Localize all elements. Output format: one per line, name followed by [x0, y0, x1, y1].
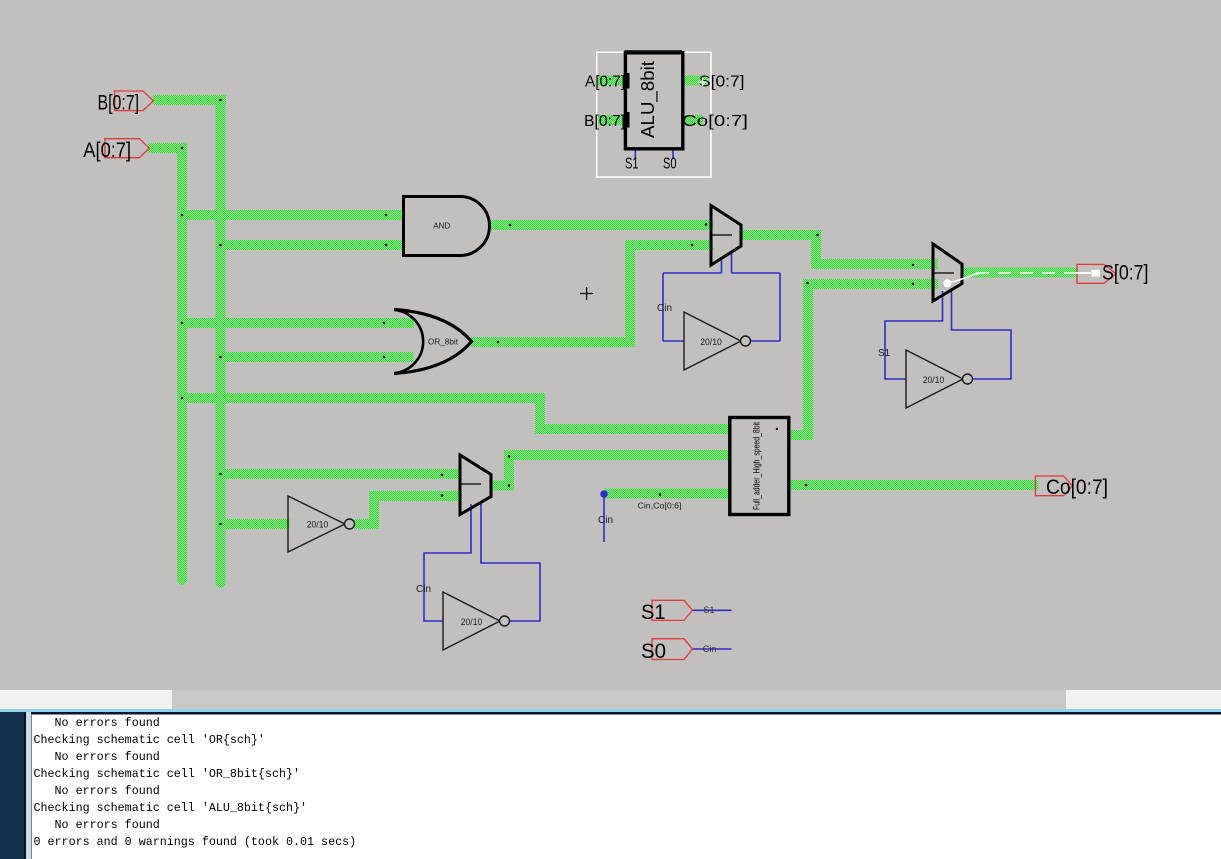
svg-text:ALU_8bit: ALU_8bit — [638, 61, 659, 138]
svg-text:20/10: 20/10 — [700, 337, 722, 347]
svg-text:B[0:7]: B[0:7] — [584, 113, 625, 130]
svg-text:S1: S1 — [641, 601, 666, 624]
svg-text:20/10: 20/10 — [923, 375, 945, 385]
svg-text:B[0:7]: B[0:7] — [98, 92, 140, 115]
svg-text:A[0:7]: A[0:7] — [83, 139, 131, 162]
svg-text:S1: S1 — [878, 348, 891, 359]
svg-text:OR_8bit: OR_8bit — [428, 338, 459, 347]
svg-text:Cin: Cin — [657, 303, 672, 314]
svg-text:Full_adder_High_speed_8bit: Full_adder_High_speed_8bit — [751, 422, 761, 510]
svg-text:Co[0:7]: Co[0:7] — [1046, 476, 1108, 499]
svg-text:S0: S0 — [641, 640, 666, 663]
svg-text:S1: S1 — [625, 156, 639, 173]
svg-text:20/10: 20/10 — [461, 617, 483, 627]
svg-text:A[0:7]: A[0:7] — [585, 74, 625, 91]
svg-text:S[0:7]: S[0:7] — [1102, 262, 1149, 285]
svg-text:20/10: 20/10 — [307, 519, 329, 529]
svg-text:Cin: Cin — [598, 515, 613, 526]
svg-text:S1: S1 — [703, 605, 714, 615]
svg-text:AND: AND — [433, 222, 450, 231]
svg-text:Cin: Cin — [703, 644, 717, 654]
svg-text:S0: S0 — [663, 156, 677, 173]
svg-text:Cin: Cin — [416, 584, 431, 595]
svg-text:Co[0:7]: Co[0:7] — [682, 113, 748, 130]
svg-text:Cin,Co[0:6]: Cin,Co[0:6] — [638, 501, 682, 511]
